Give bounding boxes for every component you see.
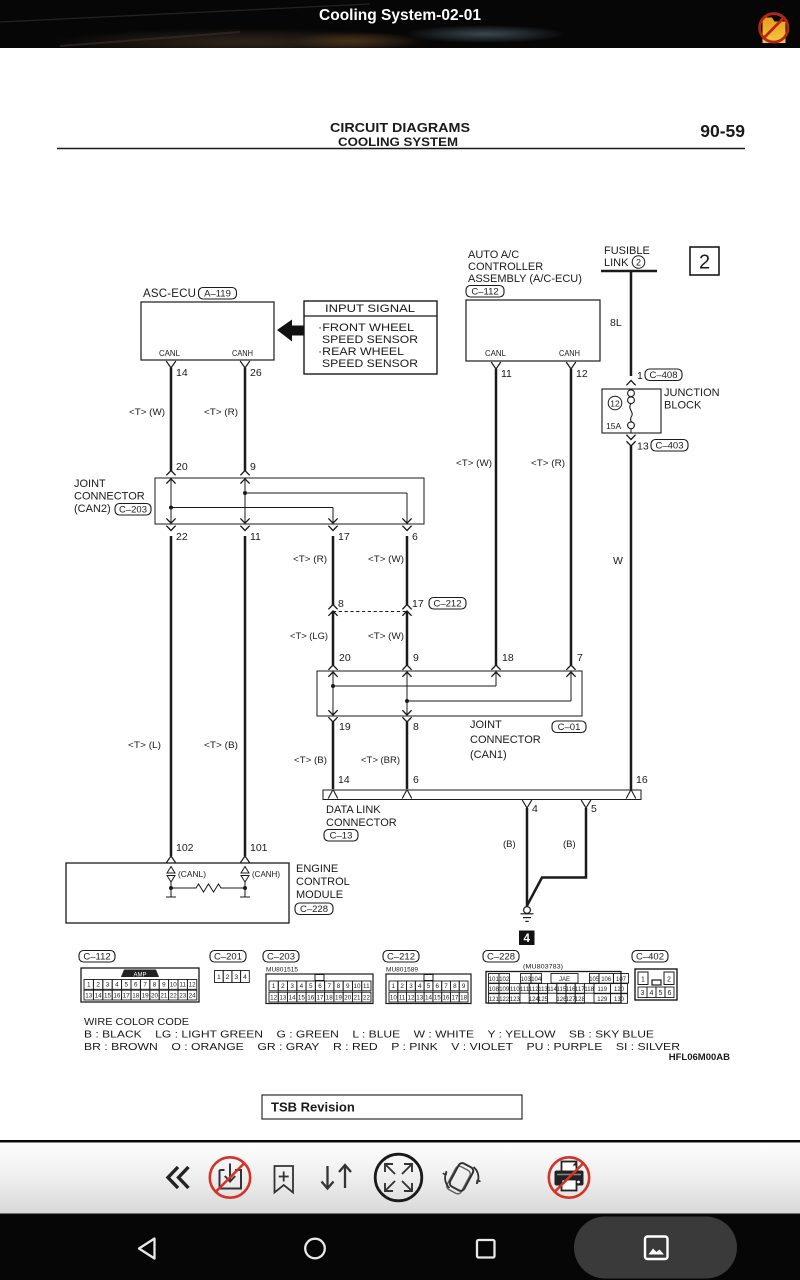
DLC entry fork 6	[402, 790, 412, 799]
pill C-13	[324, 830, 358, 842]
svg-text:12: 12	[189, 982, 197, 989]
svg-text:14: 14	[289, 994, 297, 1001]
svg-text:128: 128	[575, 997, 586, 1003]
svg-text:B : BLACK LG : LIGHT GREEN: B : BLACK LG : LIGHT GREEN G : GREEN L :…	[84, 1030, 654, 1041]
svg-text:1: 1	[392, 983, 396, 990]
svg-text:8: 8	[453, 983, 457, 990]
svg-text:16: 16	[443, 994, 451, 1001]
svg-text:INPUT SIGNAL: INPUT SIGNAL	[325, 303, 415, 315]
svg-text:23: 23	[179, 992, 187, 999]
svg-text:14: 14	[338, 774, 350, 786]
CAN1 dot lower	[405, 699, 409, 703]
svg-text:ASC-ECU: ASC-ECU	[143, 288, 196, 300]
ground symbol	[524, 907, 531, 914]
toolbar icon: back double chevron	[168, 1167, 189, 1188]
toolbar icon: rotate device	[443, 1162, 481, 1195]
svg-text:10: 10	[170, 982, 178, 989]
svg-text:90-59: 90-59	[700, 121, 745, 141]
svg-text:2: 2	[400, 983, 404, 990]
svg-text:7: 7	[444, 983, 448, 990]
svg-text:17: 17	[412, 598, 424, 610]
svg-text:15: 15	[104, 992, 112, 999]
svg-text:7: 7	[577, 652, 583, 664]
CAN2 internal wire right	[244, 480, 246, 522]
svg-text:(CANL): (CANL)	[178, 869, 206, 879]
svg-text:5: 5	[591, 803, 597, 815]
CAN1 internal bus upper	[333, 685, 496, 687]
wire C-212 to CAN1 right	[406, 611, 409, 665]
svg-text:C–402: C–402	[636, 951, 664, 962]
junction block entry chevrons	[626, 381, 635, 386]
svg-text:BR : BROWN O : ORANGE GR: BR : BROWN O : ORANGE GR : GRAY R : RED …	[84, 1042, 680, 1053]
svg-text:CANL: CANL	[485, 348, 506, 358]
svg-text:2: 2	[226, 974, 230, 981]
svg-text:14: 14	[95, 992, 103, 999]
no-bookmark icon top right	[760, 14, 788, 43]
svg-text:20: 20	[176, 461, 188, 473]
connector C-402 drawing	[635, 969, 677, 1000]
svg-text:6: 6	[436, 983, 440, 990]
svg-text:8: 8	[413, 721, 419, 733]
svg-text:Cooling System-02-01: Cooling System-02-01	[319, 7, 481, 24]
svg-text:12: 12	[576, 368, 588, 380]
svg-text:JOINT: JOINT	[470, 719, 502, 731]
svg-text:1: 1	[272, 983, 276, 990]
svg-text:JOINT: JOINT	[74, 478, 106, 490]
svg-text:16: 16	[636, 774, 648, 786]
svg-text:1: 1	[217, 974, 221, 981]
svg-text:COOLING SYSTEM: COOLING SYSTEM	[338, 135, 458, 149]
svg-text:7: 7	[143, 982, 147, 989]
svg-text:101: 101	[250, 842, 268, 854]
CAN2 exit chevrons pin 11	[240, 518, 249, 523]
android nav bar	[0, 1215, 800, 1280]
svg-text:18: 18	[326, 994, 334, 1001]
svg-text:120: 120	[614, 987, 625, 993]
svg-text:MU801589: MU801589	[386, 967, 418, 974]
svg-text:CANL: CANL	[159, 348, 180, 358]
junction block dashed box	[602, 389, 661, 433]
svg-text:CONNECTOR: CONNECTOR	[326, 817, 397, 829]
svg-text:CONNECTOR: CONNECTOR	[470, 734, 541, 746]
svg-text:CONTROLLER: CONTROLLER	[468, 261, 543, 273]
svg-text:6: 6	[318, 983, 322, 990]
svg-text:<T> (R): <T> (R)	[204, 407, 238, 418]
svg-text:22: 22	[170, 992, 178, 999]
CAN1 entry chevrons 7	[566, 665, 575, 670]
svg-text:SPEED SENSOR: SPEED SENSOR	[322, 334, 418, 346]
nav image icon	[645, 1237, 668, 1260]
svg-text:4: 4	[418, 983, 422, 990]
TSB revision box	[262, 1095, 522, 1119]
svg-text:2: 2	[699, 252, 710, 274]
A/C pin 12 fork	[566, 362, 576, 369]
svg-text:16: 16	[113, 992, 121, 999]
svg-text:26: 26	[250, 367, 262, 379]
C-212 dashed connector line	[333, 611, 407, 613]
ECM internal wires to resistor	[170, 882, 172, 888]
svg-text:102: 102	[176, 842, 194, 854]
CAN1 entry chevrons 20	[328, 665, 337, 670]
svg-text:22: 22	[363, 994, 371, 1001]
connector pill A-119	[199, 288, 237, 300]
svg-text:15A: 15A	[606, 421, 621, 431]
INPUT SIGNAL divider	[304, 315, 437, 317]
CAN2 exit chevrons pin 6	[402, 518, 411, 523]
svg-text:17: 17	[338, 531, 350, 543]
svg-text:WIRE COLOR CODE: WIRE COLOR CODE	[84, 1017, 189, 1028]
svg-text:19: 19	[142, 992, 150, 999]
svg-text:1: 1	[87, 982, 91, 989]
svg-text:MODULE: MODULE	[296, 889, 343, 901]
svg-text:<T> (L): <T> (L)	[128, 740, 161, 751]
svg-text:11: 11	[399, 994, 406, 1001]
connector C-201 pill	[210, 951, 246, 963]
CAN2 entry chevrons pin 9	[240, 471, 249, 476]
A/C controller box U2	[466, 300, 600, 361]
svg-text:CANH: CANH	[232, 348, 253, 358]
svg-text:9: 9	[462, 983, 466, 990]
data link connector box	[323, 790, 641, 800]
svg-text:4: 4	[300, 983, 304, 990]
wire pin17 to C-212	[332, 536, 335, 605]
svg-text:20: 20	[344, 994, 352, 1001]
C-212 chevrons right	[402, 605, 411, 610]
svg-text:C–201: C–201	[214, 951, 242, 962]
svg-text:8: 8	[338, 598, 344, 610]
pin 14 fork	[166, 361, 176, 368]
svg-text:20: 20	[339, 652, 351, 664]
svg-text:19: 19	[339, 721, 351, 733]
pill C-408	[645, 369, 682, 381]
svg-text:C–203: C–203	[119, 504, 147, 515]
joint connector CAN2 box	[155, 478, 424, 524]
DLC entry fork 14	[328, 790, 338, 799]
CAN1 internal wire 1	[332, 673, 334, 714]
svg-text:105: 105	[589, 977, 600, 983]
input signal arrow	[277, 320, 304, 342]
svg-text:C–112: C–112	[471, 286, 498, 297]
CAN2 internal wire left	[170, 480, 172, 522]
wire W down to DLC	[630, 446, 633, 791]
svg-text:4: 4	[650, 990, 654, 997]
ground wire from pin 5	[527, 808, 586, 906]
svg-text:4: 4	[532, 803, 538, 815]
svg-text:1: 1	[637, 370, 643, 382]
svg-text:106: 106	[601, 977, 612, 983]
termination stubs	[170, 888, 172, 897]
wire C-212 to CAN1 left	[332, 611, 335, 665]
CAN1 internal bus lower	[407, 700, 571, 702]
svg-text:102: 102	[499, 977, 510, 983]
joint connector CAN1 box	[317, 671, 582, 716]
svg-text:<T> (W): <T> (W)	[368, 631, 404, 642]
svg-text:18: 18	[132, 992, 140, 999]
ground ref black box 4	[519, 931, 535, 946]
svg-text:·FRONT WHEEL: ·FRONT WHEEL	[318, 322, 414, 334]
toolbar icon: sort arrows	[322, 1165, 352, 1189]
pill C-203	[115, 504, 151, 516]
svg-text:13: 13	[85, 992, 93, 999]
svg-text:12: 12	[610, 399, 620, 409]
CAN1 internal wire 2	[406, 673, 408, 714]
wire CANH from ASC-ECU pin 26	[244, 368, 247, 471]
svg-text:2: 2	[96, 982, 100, 989]
toolbar icon: add bookmark	[275, 1166, 294, 1193]
svg-text:103: 103	[521, 977, 532, 983]
pill C-228	[295, 903, 333, 915]
svg-text:A–119: A–119	[204, 288, 231, 299]
fuse 12 circle label	[608, 396, 622, 410]
svg-text:6: 6	[134, 982, 138, 989]
toolbar icon: no-print	[549, 1157, 589, 1197]
svg-text:<T> (R): <T> (R)	[293, 554, 327, 565]
CAN2 internal bus upper	[245, 492, 407, 494]
svg-text:5: 5	[309, 983, 313, 990]
svg-text:4: 4	[523, 933, 530, 945]
svg-text:(CAN1): (CAN1)	[470, 749, 507, 761]
svg-text:17: 17	[451, 994, 459, 1001]
wire 19 to DLC	[332, 722, 335, 789]
svg-text:1: 1	[641, 977, 645, 984]
svg-text:AMP: AMP	[133, 973, 146, 979]
svg-text:7: 7	[327, 983, 331, 990]
svg-text:(B): (B)	[503, 839, 516, 850]
connector C-212 pill	[383, 951, 419, 963]
svg-text:CIRCUIT DIAGRAMS: CIRCUIT DIAGRAMS	[330, 120, 470, 135]
svg-text:13: 13	[416, 994, 424, 1001]
CAN1 entry chevrons 9	[402, 665, 411, 670]
connector C-228 drawing	[486, 972, 629, 1004]
wire pin6 to C-212	[406, 536, 409, 605]
svg-text:HFL06M00AB: HFL06M00AB	[669, 1052, 730, 1063]
wire CAN-H down to ECM	[244, 536, 247, 856]
svg-text:13: 13	[637, 441, 649, 453]
svg-text:CONTROL: CONTROL	[296, 876, 350, 888]
svg-text:<T> (B): <T> (B)	[294, 755, 327, 766]
svg-text:<T> (R): <T> (R)	[531, 458, 565, 469]
svg-text:C–408: C–408	[650, 370, 678, 381]
ECM internal triangle pair CANH	[241, 867, 249, 874]
svg-text:<T> (LG): <T> (LG)	[290, 631, 328, 642]
ASC-ECU box U1	[141, 302, 274, 360]
CAN2 junction dot lower	[169, 506, 173, 510]
CAN2 exit chevrons pin 22	[166, 518, 175, 523]
fuse symbol	[628, 390, 635, 397]
svg-text:4: 4	[115, 982, 119, 989]
INPUT SIGNAL box	[304, 301, 437, 374]
ECM pin fork 101	[240, 856, 250, 863]
CAN1 entry chevrons 18	[491, 665, 500, 670]
svg-text:(B): (B)	[563, 839, 576, 850]
svg-text:110: 110	[510, 987, 520, 993]
svg-text:107: 107	[616, 977, 627, 983]
svg-text:6: 6	[413, 774, 419, 786]
A/C pin 11 fork	[491, 362, 501, 369]
svg-text:16: 16	[307, 994, 315, 1001]
CAN1 exit chevrons 8	[402, 710, 411, 715]
svg-text:109: 109	[499, 987, 510, 993]
svg-text:DATA LINK: DATA LINK	[326, 804, 381, 816]
svg-text:<T> (W): <T> (W)	[129, 407, 165, 418]
svg-text:BLOCK: BLOCK	[664, 400, 702, 412]
svg-text:<T> (W): <T> (W)	[368, 554, 404, 565]
engine control module box	[66, 863, 289, 923]
junction block exit chevrons	[626, 435, 635, 440]
svg-text:TSB Revision: TSB Revision	[271, 1100, 355, 1115]
svg-text:104: 104	[531, 977, 542, 983]
svg-text:22: 22	[176, 531, 188, 543]
svg-text:17: 17	[123, 992, 131, 999]
svg-text:11: 11	[363, 983, 370, 990]
DLC entry fork 16	[626, 790, 636, 799]
svg-text:19: 19	[335, 994, 343, 1001]
svg-text:<T> (W): <T> (W)	[456, 458, 492, 469]
connector C-203 drawing	[266, 974, 373, 1004]
svg-text:ASSEMBLY (A/C-ECU): ASSEMBLY (A/C-ECU)	[468, 273, 582, 285]
svg-text:8: 8	[153, 982, 157, 989]
svg-text:21: 21	[160, 992, 168, 999]
svg-text:8L: 8L	[610, 317, 622, 329]
svg-text:MU801515: MU801515	[266, 967, 298, 974]
svg-text:11: 11	[179, 982, 186, 989]
ECM pin fork 102	[166, 856, 176, 863]
svg-text:9: 9	[162, 982, 166, 989]
svg-text:JAE: JAE	[559, 977, 570, 983]
nav home circle	[305, 1239, 325, 1259]
svg-text:CANH: CANH	[559, 348, 580, 358]
svg-text:24: 24	[189, 992, 197, 999]
toolbar icon: fit expand	[375, 1154, 422, 1201]
svg-text:ENGINE: ENGINE	[296, 863, 338, 875]
svg-text:FUSIBLE: FUSIBLE	[604, 245, 650, 257]
wire CANL from ASC-ECU pin 14	[170, 368, 173, 471]
svg-text:9: 9	[250, 461, 256, 473]
svg-text:123: 123	[510, 997, 521, 1003]
CAN2 internal bus lower	[171, 507, 333, 509]
CAN1 exit chevrons 19	[328, 710, 337, 715]
svg-text:5: 5	[427, 983, 431, 990]
svg-text:C–228: C–228	[300, 904, 328, 915]
svg-text:AUTO A/C: AUTO A/C	[468, 249, 519, 261]
svg-text:130: 130	[614, 997, 625, 1003]
svg-text:·REAR WHEEL: ·REAR WHEEL	[318, 346, 404, 358]
svg-text:5: 5	[659, 990, 663, 997]
svg-text:C–228: C–228	[487, 951, 515, 962]
connector C-402 pill	[632, 951, 668, 963]
nav back triangle	[139, 1239, 155, 1259]
svg-text:15: 15	[434, 994, 442, 1001]
pill C-112 top	[466, 286, 504, 298]
header rule	[57, 148, 745, 150]
svg-text:JUNCTION: JUNCTION	[664, 387, 720, 399]
svg-text:(CAN2): (CAN2)	[74, 503, 111, 515]
nav recents square	[477, 1240, 495, 1258]
svg-text:9: 9	[413, 652, 419, 664]
svg-text:<T> (B): <T> (B)	[204, 740, 238, 751]
resistor junction dots	[169, 886, 173, 890]
svg-text:21: 21	[354, 994, 362, 1001]
svg-text:18: 18	[460, 994, 468, 1001]
svg-text:14: 14	[425, 994, 433, 1001]
connector C-212 drawing	[386, 974, 471, 1004]
fusible link bus bar	[601, 270, 657, 273]
pill C-403	[651, 440, 688, 452]
svg-text:6: 6	[668, 990, 672, 997]
nav pill button	[574, 1217, 737, 1279]
ground wire from pin 4	[526, 808, 529, 906]
connector C-112 drawing	[81, 968, 199, 1002]
svg-text:8: 8	[337, 983, 341, 990]
ECM internal triangle pair CANL	[167, 867, 175, 874]
svg-text:9: 9	[346, 983, 350, 990]
svg-text:(MU803783): (MU803783)	[523, 964, 563, 971]
svg-text:11: 11	[501, 368, 512, 380]
CAN2 exit chevrons pin 17	[328, 518, 337, 523]
svg-text:17: 17	[316, 994, 324, 1001]
svg-text:3: 3	[290, 983, 294, 990]
svg-text:C–212: C–212	[434, 598, 462, 609]
svg-text:C–13: C–13	[330, 830, 353, 841]
svg-text:C–01: C–01	[558, 722, 581, 733]
connector C-112 pill	[79, 951, 115, 963]
pill C-212	[429, 598, 466, 610]
svg-text:2: 2	[281, 983, 285, 990]
svg-text:5: 5	[125, 982, 129, 989]
svg-text:C–203: C–203	[267, 951, 295, 962]
terminating resistor	[171, 884, 245, 892]
svg-text:121: 121	[489, 997, 500, 1003]
svg-text:20: 20	[151, 992, 159, 999]
svg-text:4: 4	[243, 974, 247, 981]
DLC exit fork 4	[522, 800, 532, 808]
wire 8 to DLC	[406, 722, 409, 789]
svg-text:101: 101	[489, 977, 500, 983]
pill C-01	[552, 721, 586, 733]
C-212 chevrons left	[328, 605, 337, 610]
svg-text:10: 10	[354, 983, 362, 990]
wire from A/C pin 12	[570, 369, 573, 665]
svg-text:14: 14	[176, 367, 188, 379]
svg-text:15: 15	[298, 994, 306, 1001]
svg-text:10: 10	[390, 994, 398, 1001]
svg-text:12: 12	[407, 994, 415, 1001]
svg-text:108: 108	[489, 987, 500, 993]
connector C-228 pill	[483, 951, 519, 963]
svg-text:(CANH): (CANH)	[252, 869, 280, 879]
svg-text:C–212: C–212	[387, 951, 415, 962]
svg-text:3: 3	[641, 990, 645, 997]
connector C-201 drawing	[215, 971, 250, 983]
svg-text:119: 119	[598, 987, 608, 993]
svg-text:122: 122	[499, 997, 510, 1003]
svg-text:118: 118	[584, 987, 594, 993]
svg-text:125: 125	[538, 997, 549, 1003]
svg-text:11: 11	[250, 531, 261, 543]
svg-text:SPEED SENSOR: SPEED SENSOR	[322, 358, 418, 370]
svg-text:13: 13	[279, 994, 287, 1001]
pin 26 fork	[240, 361, 250, 368]
connector C-203 pill	[263, 951, 299, 963]
svg-text:3: 3	[234, 974, 238, 981]
svg-text:CONNECTOR: CONNECTOR	[74, 491, 145, 503]
CAN1 dot upper	[331, 684, 335, 688]
svg-text:W: W	[613, 555, 623, 567]
wire CAN-L down to ECM	[170, 536, 173, 856]
wire 8L from fusible link	[630, 271, 633, 376]
svg-text:3: 3	[409, 983, 413, 990]
page ref box 2	[690, 247, 719, 275]
